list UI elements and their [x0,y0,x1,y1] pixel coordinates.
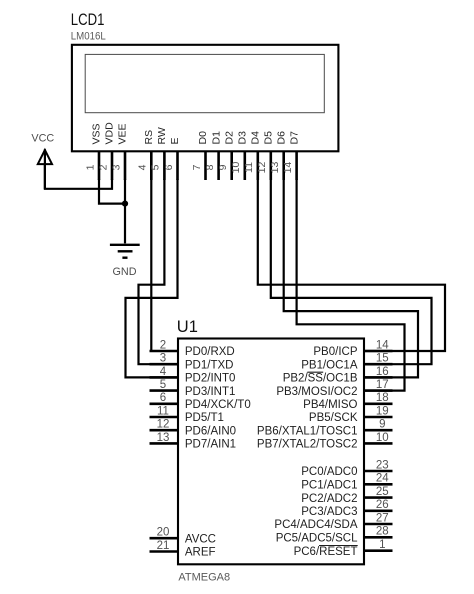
LCD1 pin 6 (E) [163,137,181,180]
svg-text:RW: RW [156,127,168,144]
svg-text:D6: D6 [275,131,287,145]
svg-text:8: 8 [204,164,216,170]
U1 pin 6 (PD4/XCK/T0) left [150,392,251,411]
U1 pin 20 (AVCC) left [150,527,217,546]
wire RW (LCD1 pin 5) to U1 PD1 [139,179,178,364]
svg-text:3: 3 [110,164,122,170]
svg-text:PB1/OC1A: PB1/OC1A [301,359,358,371]
U1 pin 16 (PB2/SS/OC1B) right [283,366,393,385]
svg-text:11: 11 [157,405,169,417]
LCD1 pin 13 (D6) [269,131,287,180]
wire D4 (LCD1 pin 11) to U1 PB0 [258,179,445,351]
U1 pin 24 (PC1/ADC1) right [301,473,392,492]
svg-text:26: 26 [376,499,389,511]
svg-text:14: 14 [376,339,389,351]
svg-text:PC5/ADC5/SCL: PC5/ADC5/SCL [276,533,358,545]
svg-text:D3: D3 [237,131,249,145]
svg-text:VCC: VCC [31,133,54,145]
svg-text:12: 12 [157,419,170,431]
wire LCD1 VEE pin 3 to GND [124,179,126,243]
U1 pin 14 (PB0/ICP) right [313,339,392,358]
svg-text:D7: D7 [288,131,300,145]
svg-text:10: 10 [376,432,389,444]
svg-text:GND: GND [113,266,137,278]
U1 pin 15 (PB1/OC1A) right [301,353,392,372]
svg-text:25: 25 [376,486,389,498]
svg-text:9: 9 [379,419,385,431]
svg-text:24: 24 [376,473,389,485]
svg-text:VSS: VSS [91,123,103,144]
svg-text:PD4/XCK/T0: PD4/XCK/T0 [185,399,251,411]
svg-text:13: 13 [157,432,170,444]
U1 pin 5 (PD3/INT1) left [150,379,236,398]
svg-text:14: 14 [282,162,294,174]
svg-text:PD2/INT0: PD2/INT0 [185,373,236,385]
junction VSS/VEE ground node [122,201,128,207]
svg-text:PD5/T1: PD5/T1 [185,412,224,424]
svg-text:PC4/ADC4/SDA: PC4/ADC4/SDA [274,519,357,531]
svg-text:16: 16 [376,366,389,378]
svg-text:10: 10 [230,162,242,174]
LCD1 pin 5 (RW) [150,127,168,180]
wire E (LCD1 pin 6) to U1 PD2 [126,179,178,377]
svg-text:RS: RS [143,130,155,145]
svg-text:VEE: VEE [117,123,129,144]
svg-text:PD7/AIN1: PD7/AIN1 [185,439,236,451]
svg-text:21: 21 [157,540,170,552]
svg-text:VDD: VDD [104,122,116,145]
U1 pin 17 (PB3/MOSI/OC2) right [276,379,392,398]
svg-text:PD3/INT1: PD3/INT1 [185,386,236,398]
svg-text:27: 27 [376,512,389,524]
svg-text:PB5/SCK: PB5/SCK [309,412,358,424]
LCD1 pin 4 (RS) [137,130,155,180]
svg-text:4: 4 [137,164,149,170]
LCD1 pin 2 (VDD) [97,122,115,180]
svg-text:11: 11 [243,162,255,173]
U1 pin 13 (PD7/AIN1) left [150,432,237,451]
U1 pin 11 (PD5/T1) left [150,405,224,424]
LCD1 pin 9 (D2) [217,131,235,180]
svg-text:PC1/ADC1: PC1/ADC1 [301,480,357,492]
U1 pin 9 (PB6/XTAL1/TOSC1) right [257,419,393,438]
U1 pin 23 (PC0/ADC0) right [301,459,392,478]
wire LCD1 VSS pin 1 to ground net [99,179,125,204]
LCD1 pin 3 (VEE) [110,123,128,180]
U1 pin 2 (PD0/RXD) left [150,339,235,358]
svg-text:1: 1 [379,539,385,551]
wire RS (LCD1 pin 4) to U1 PD0 [150,179,152,352]
svg-text:7: 7 [191,164,203,170]
svg-text:LM016L: LM016L [71,30,106,42]
wire D6 (LCD1 pin 13) to U1 PB2 [284,179,418,377]
ground symbol GND [110,245,140,278]
U1 pin 25 (PC2/ADC2) right [301,486,392,505]
power symbol VCC [31,133,54,189]
svg-text:6: 6 [160,392,166,404]
svg-text:5: 5 [150,164,162,170]
svg-text:3: 3 [160,353,166,365]
wire D7 (LCD1 pin 14) to U1 PB3 [297,179,405,391]
U1 pin 21 (AREF) left [150,540,216,559]
svg-text:PB4/MISO: PB4/MISO [303,399,357,411]
svg-text:2: 2 [160,339,166,351]
svg-text:5: 5 [160,379,166,391]
LCD1 pin 7 (D0) [191,131,209,180]
svg-text:PC2/ADC2: PC2/ADC2 [301,493,357,505]
svg-text:12: 12 [256,162,268,174]
svg-text:PB3/MOSI/OC2: PB3/MOSI/OC2 [276,386,357,398]
svg-text:D1: D1 [210,131,222,145]
svg-text:AREF: AREF [185,547,216,559]
svg-text:19: 19 [376,405,389,417]
wire VCC to LCD1 VDD pin 2 [45,163,112,188]
svg-text:23: 23 [376,459,389,471]
svg-text:1: 1 [84,164,96,170]
svg-text:4: 4 [160,366,167,378]
svg-text:20: 20 [157,527,170,539]
svg-text:D2: D2 [223,131,235,145]
U1 pin 26 (PC3/ADC3) right [301,499,392,518]
LCD1 pin 14 (D7) [282,131,300,180]
svg-text:LCD1: LCD1 [71,11,105,29]
svg-text:ATMEGA8: ATMEGA8 [178,571,230,583]
svg-text:17: 17 [376,379,389,391]
svg-text:D5: D5 [263,131,275,145]
svg-text:28: 28 [376,526,389,538]
svg-text:13: 13 [269,162,281,174]
svg-text:PB6/XTAL1/TOSC1: PB6/XTAL1/TOSC1 [257,425,358,437]
U1 pin 3 (PD1/TXD) left [150,353,234,372]
svg-text:9: 9 [217,164,229,170]
svg-text:PB0/ICP: PB0/ICP [313,346,357,358]
U1 pin 4 (PD2/INT0) left [150,366,236,385]
LCD1 pin 1 (VSS) [84,123,102,180]
LCD1 pin 11 (D4) [243,131,261,180]
LCD1 pin 10 (D3) [230,131,248,180]
svg-text:PB7/XTAL2/TOSC2: PB7/XTAL2/TOSC2 [257,439,358,451]
svg-text:D4: D4 [250,131,262,145]
U1 pin 10 (PB7/XTAL2/TOSC2) right [257,432,393,451]
svg-text:E: E [169,137,181,144]
U1 pin 27 (PC4/ADC4/SDA) right [274,512,392,531]
U1 pin 1 (PC6/RESET) right [294,539,393,558]
svg-text:PD1/TXD: PD1/TXD [185,359,234,371]
svg-text:6: 6 [163,164,175,170]
U1 pin 19 (PB5/SCK) right [309,405,393,424]
svg-text:PD6/AIN0: PD6/AIN0 [185,425,236,437]
U1 pin 18 (PB4/MISO) right [303,392,392,411]
svg-text:PB2/SS/OC1B: PB2/SS/OC1B [283,373,358,385]
svg-text:PD0/RXD: PD0/RXD [185,346,235,358]
microcontroller U1 body [178,339,364,565]
svg-text:PC6/RESET: PC6/RESET [294,546,358,558]
svg-text:PC3/ADC3: PC3/ADC3 [301,506,357,518]
wire D5 (LCD1 pin 12) to U1 PB1 [271,179,432,364]
U1 pin 12 (PD6/AIN0) left [150,419,237,438]
LCD module LCD1 body [72,45,339,152]
svg-text:U1: U1 [177,318,198,336]
LCD1 pin 8 (D1) [204,131,222,180]
svg-text:D0: D0 [197,131,209,145]
svg-text:PC0/ADC0: PC0/ADC0 [301,466,357,478]
svg-text:AVCC: AVCC [185,533,216,545]
svg-text:2: 2 [97,164,109,170]
U1 pin 28 (PC5/ADC5/SCL) right [276,526,393,545]
svg-text:15: 15 [376,353,389,365]
svg-text:18: 18 [376,392,389,404]
LCD1 pin 12 (D5) [256,131,274,180]
